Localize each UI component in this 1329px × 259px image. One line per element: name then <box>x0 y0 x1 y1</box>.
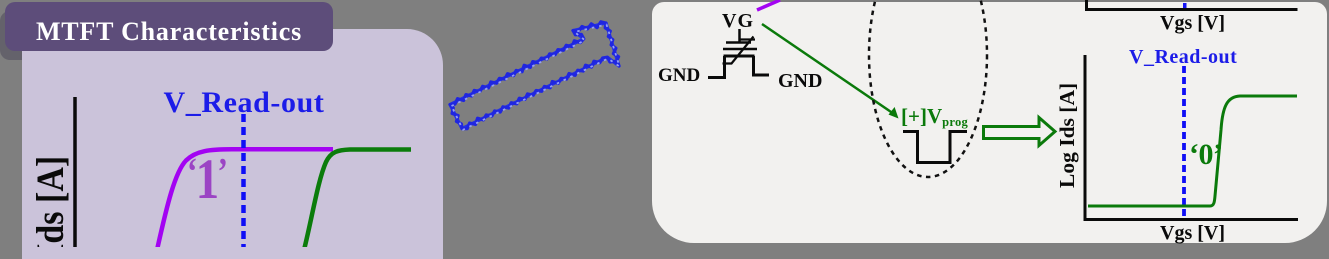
svg-text:Log Ids [A]: Log Ids [A] <box>1055 83 1079 188</box>
svg-text:Log Ids [A]: Log Ids [A] <box>28 156 72 247</box>
